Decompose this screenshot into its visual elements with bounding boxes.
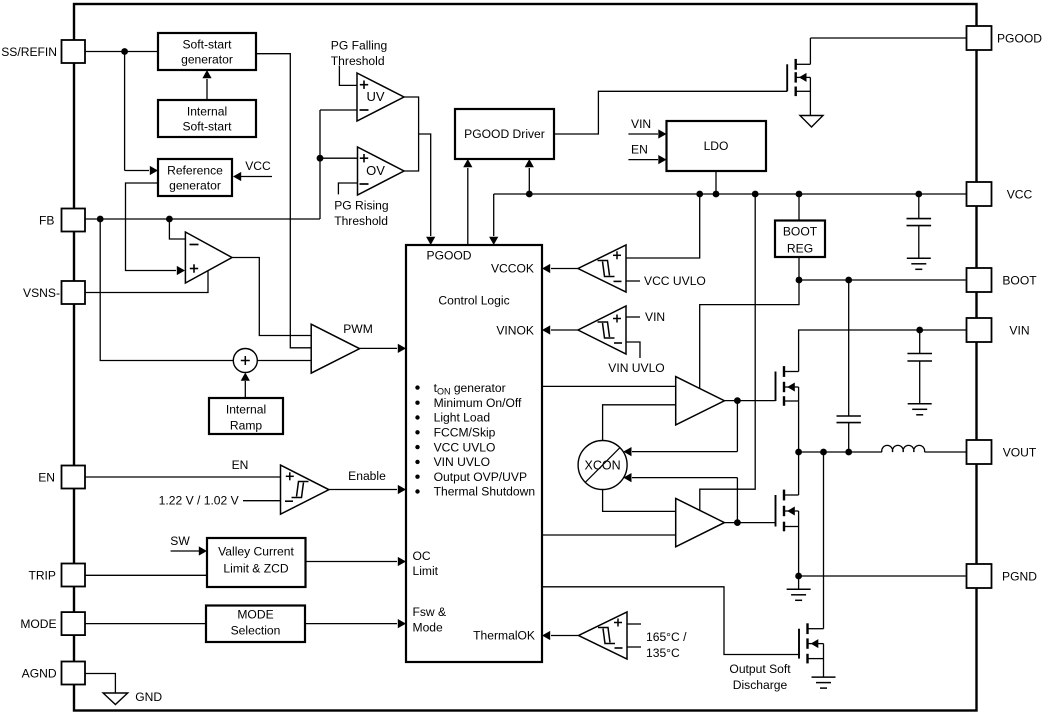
svg-text:Enable: Enable (348, 469, 386, 483)
svg-text:PGOOD Driver: PGOOD Driver (464, 127, 545, 141)
svg-text:VIN: VIN (645, 310, 665, 324)
svg-text:XCON: XCON (585, 459, 621, 473)
svg-text:Output OVP/UVP: Output OVP/UVP (434, 470, 527, 484)
svg-text:VSNS-: VSNS- (23, 286, 60, 300)
svg-text:FCCM/Skip: FCCM/Skip (434, 426, 496, 440)
svg-text:BOOT: BOOT (783, 225, 818, 239)
svg-text:Threshold: Threshold (334, 214, 388, 228)
svg-text:PG Rising: PG Rising (334, 199, 388, 213)
svg-text:FB: FB (39, 214, 54, 228)
svg-text:PWM: PWM (343, 322, 373, 336)
svg-text:UV: UV (366, 89, 384, 104)
svg-text:VCC: VCC (245, 159, 271, 173)
svg-text:VCC UVLO: VCC UVLO (644, 274, 706, 288)
svg-text:Thermal Shutdown: Thermal Shutdown (434, 485, 536, 499)
svg-text:VIN: VIN (1009, 324, 1029, 338)
svg-text:135°C: 135°C (646, 646, 680, 660)
svg-text:PG Falling: PG Falling (331, 39, 387, 53)
svg-text:VIN UVLO: VIN UVLO (434, 455, 490, 469)
svg-text:Limit & ZCD: Limit & ZCD (223, 562, 288, 576)
svg-text:Soft-start: Soft-start (182, 38, 232, 52)
svg-text:Limit: Limit (413, 564, 439, 578)
svg-text:Ramp: Ramp (230, 419, 263, 433)
svg-text:PGND: PGND (1002, 570, 1037, 584)
svg-text:Fsw &: Fsw & (413, 605, 447, 619)
svg-text:Light Load: Light Load (434, 411, 491, 425)
svg-text:generator: generator (169, 179, 221, 193)
svg-text:VIN: VIN (631, 117, 651, 131)
svg-text:Internal: Internal (187, 105, 227, 119)
svg-text:MODE: MODE (237, 608, 273, 622)
svg-text:AGND: AGND (22, 667, 57, 681)
svg-text:generator: generator (181, 53, 233, 67)
svg-text:1.22 V / 1.02 V: 1.22 V / 1.02 V (159, 494, 240, 508)
svg-text:VCCOK: VCCOK (491, 262, 534, 276)
svg-text:REG: REG (787, 242, 813, 256)
svg-text:Minimum On/Off: Minimum On/Off (434, 396, 522, 410)
svg-text:BOOT: BOOT (1002, 274, 1037, 288)
svg-text:LDO: LDO (704, 139, 729, 153)
svg-text:VIN UVLO: VIN UVLO (608, 361, 664, 375)
svg-text:VINOK: VINOK (496, 324, 534, 338)
svg-text:OC: OC (413, 549, 431, 563)
svg-text:Output Soft: Output Soft (729, 662, 791, 676)
svg-text:Selection: Selection (231, 624, 281, 638)
svg-text:EN: EN (631, 143, 648, 157)
svg-text:VCC: VCC (1007, 188, 1033, 202)
svg-text:SW: SW (170, 534, 190, 548)
svg-text:Mode: Mode (413, 620, 444, 634)
svg-text:OV: OV (366, 163, 385, 178)
svg-text:MODE: MODE (20, 617, 56, 631)
svg-text:Reference: Reference (167, 164, 223, 178)
svg-text:165°C /: 165°C / (646, 630, 687, 644)
svg-text:GND: GND (135, 690, 162, 704)
svg-text:Internal: Internal (226, 403, 266, 417)
svg-text:PGOOD: PGOOD (997, 32, 1042, 46)
svg-text:Threshold: Threshold (331, 54, 385, 68)
svg-text:Control Logic: Control Logic (438, 294, 509, 308)
svg-text:TRIP: TRIP (28, 569, 56, 583)
svg-text:Discharge: Discharge (733, 678, 788, 692)
svg-text:PGOOD: PGOOD (427, 249, 472, 263)
svg-text:ThermalOK: ThermalOK (473, 629, 535, 643)
svg-text:Soft-start: Soft-start (182, 120, 232, 134)
svg-text:VCC UVLO: VCC UVLO (434, 440, 496, 454)
svg-text:SS/REFIN: SS/REFIN (1, 45, 57, 59)
svg-text:VOUT: VOUT (1003, 446, 1037, 460)
svg-text:EN: EN (38, 471, 55, 485)
svg-text:Valley Current: Valley Current (218, 545, 294, 559)
svg-text:EN: EN (232, 458, 249, 472)
